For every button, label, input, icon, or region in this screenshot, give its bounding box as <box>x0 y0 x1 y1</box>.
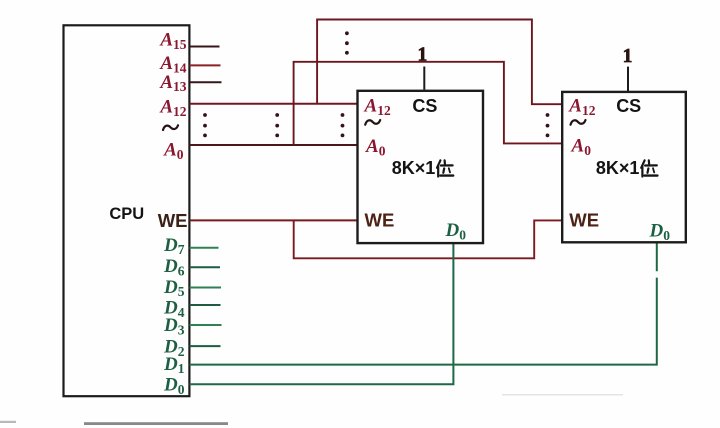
scan artifact faint line bottom-centre <box>502 394 623 396</box>
svg-text:CS: CS <box>412 96 437 116</box>
wire D5 stub <box>190 287 222 289</box>
tilde ellipsis U1 address <box>365 120 380 125</box>
svg-text:1: 1 <box>418 45 428 66</box>
wire A0 CPU to U1 <box>190 144 358 146</box>
CPU block box <box>64 25 190 396</box>
scan artifact grey dash bottom-left <box>0 421 16 423</box>
wire D4 stub <box>190 304 221 306</box>
CJK glyph wei (U1) <box>437 160 453 176</box>
svg-text:8K×1: 8K×1 <box>596 158 640 178</box>
tilde ellipsis U2 address <box>571 120 586 125</box>
tilde ellipsis CPU address <box>163 125 178 130</box>
wire CS lead U1 <box>423 67 425 90</box>
ellipsis dots top bus <box>345 31 349 54</box>
ellipsis dots address lines col4 (before U2) <box>546 113 550 137</box>
memory chip U1 box <box>358 91 484 243</box>
wire D7 stub <box>190 247 219 249</box>
ellipsis dots address lines col2 <box>275 113 279 137</box>
wire A14 stub <box>190 64 221 66</box>
wire D6 stub <box>190 266 221 268</box>
wire CS lead U2 <box>627 67 629 92</box>
wire D2 stub <box>190 345 221 347</box>
ellipsis dots address lines col1 <box>203 113 207 137</box>
scan artifact grey line bottom <box>84 422 228 425</box>
wire A12 bus riser and top run to U2 <box>317 20 562 105</box>
wire WE CPU to U1 <box>190 219 358 221</box>
wire D1 to U2 D0 (with scan gap) <box>190 244 657 365</box>
wire A13 stub <box>190 81 222 83</box>
svg-text:WE: WE <box>569 210 599 231</box>
memory chip U2 box <box>562 92 686 242</box>
svg-text:WE: WE <box>158 210 188 231</box>
svg-text:1: 1 <box>623 46 633 67</box>
svg-text:8K×1: 8K×1 <box>392 158 436 178</box>
wire A15 stub <box>190 46 220 48</box>
CJK glyph wei (U2) <box>641 160 657 176</box>
wire D3 stub <box>190 324 222 326</box>
wire A0 bus riser and second run to U2 <box>294 62 563 145</box>
svg-text:CPU: CPU <box>109 205 144 223</box>
svg-text:CS: CS <box>616 96 641 116</box>
svg-text:WE: WE <box>365 210 395 231</box>
wire D0 to U1 D0 <box>190 243 454 384</box>
wire WE branch to U2 <box>294 220 563 258</box>
ellipsis dots address lines col3 <box>341 113 345 137</box>
wire A12 CPU to U1 <box>190 103 358 105</box>
